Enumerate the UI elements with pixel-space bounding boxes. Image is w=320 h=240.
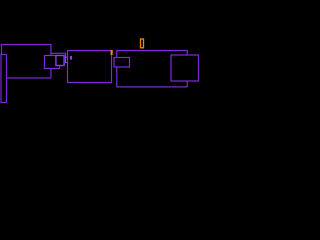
- pin P2 (orange pad on top-right corner of M): [111, 50, 113, 55]
- component O1 (orange part above R): [141, 39, 144, 48]
- module box A (left large block): [2, 45, 52, 79]
- pin P3 (solid pad inside M): [70, 56, 72, 60]
- module box B (tall narrow block bottom-left): [1, 55, 7, 103]
- pin P1 (small connector left of module M): [66, 57, 68, 63]
- module box M (middle large block): [68, 51, 112, 83]
- module box R (right large block): [117, 51, 187, 87]
- wire W1 from A to pin P1: [51, 53, 66, 57]
- module box E (bright small block over C): [56, 56, 64, 66]
- module box S2 (square block on right edge of R): [171, 55, 199, 81]
- module box S1 (small block on left edge of R): [114, 58, 130, 68]
- module box C (small block on right edge of A): [45, 56, 60, 69]
